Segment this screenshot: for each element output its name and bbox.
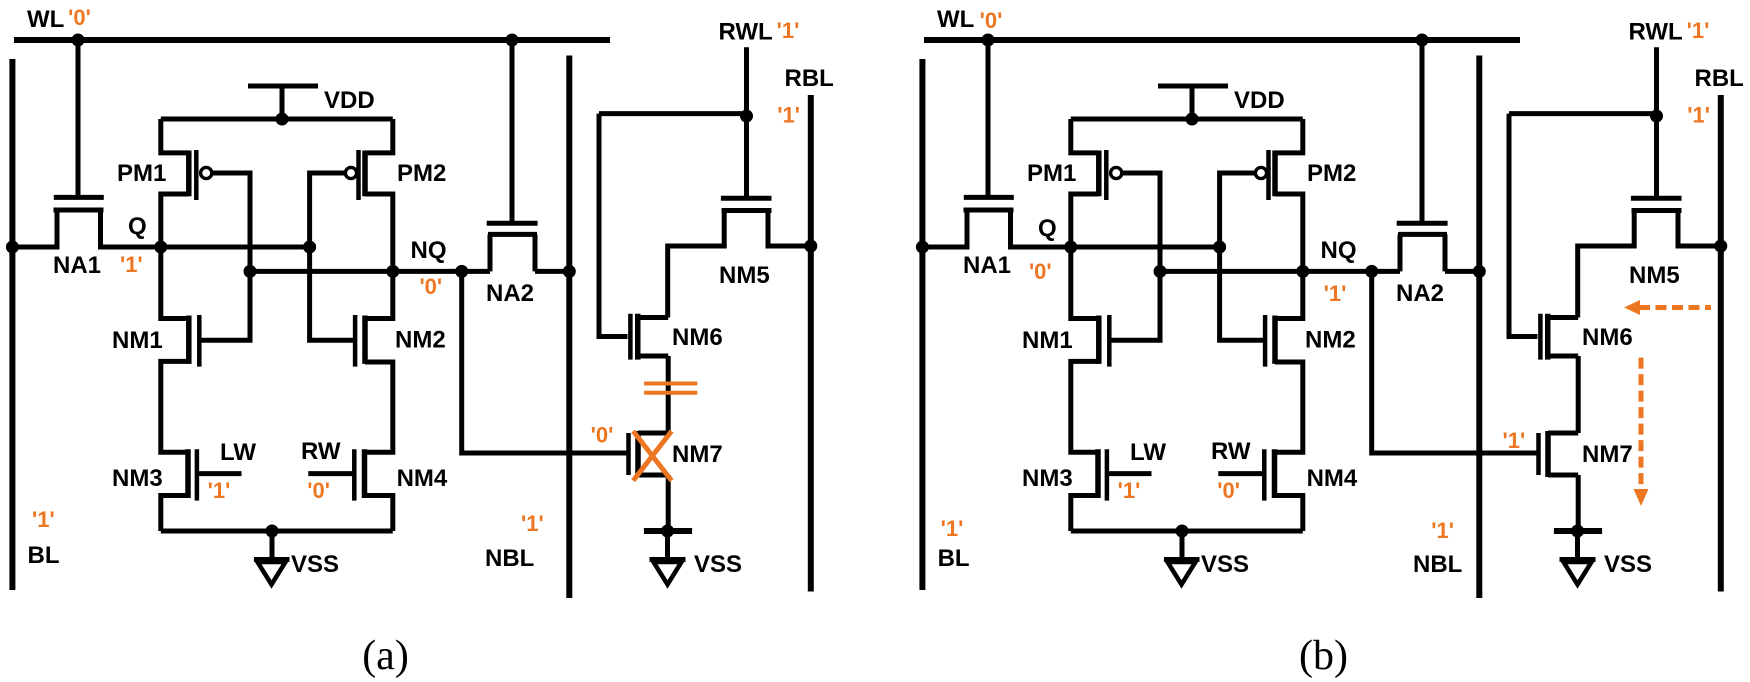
svg-text:LW: LW xyxy=(1130,439,1166,466)
svg-text:NA1: NA1 xyxy=(963,252,1011,279)
svg-text:VSS: VSS xyxy=(291,551,339,578)
svg-text:VDD: VDD xyxy=(1234,87,1285,114)
svg-text:'1': '1' xyxy=(208,478,231,503)
svg-text:NQ: NQ xyxy=(411,237,447,264)
svg-text:NM2: NM2 xyxy=(395,327,446,354)
svg-text:PM1: PM1 xyxy=(117,160,166,187)
svg-text:'1': '1' xyxy=(1687,103,1710,128)
svg-text:NM1: NM1 xyxy=(112,327,163,354)
svg-text:VSS: VSS xyxy=(694,551,742,578)
svg-text:RWL: RWL xyxy=(1629,19,1683,46)
svg-text:(b): (b) xyxy=(1299,633,1348,679)
svg-text:NA1: NA1 xyxy=(53,252,101,279)
svg-text:NA2: NA2 xyxy=(1396,280,1444,307)
svg-text:'0': '0' xyxy=(1029,259,1052,284)
svg-text:'1': '1' xyxy=(777,18,800,43)
svg-text:NA2: NA2 xyxy=(486,280,534,307)
svg-text:LW: LW xyxy=(220,439,256,466)
svg-text:'0': '0' xyxy=(1217,478,1240,503)
svg-text:PM1: PM1 xyxy=(1027,160,1076,187)
svg-text:NM4: NM4 xyxy=(1307,465,1358,492)
svg-text:PM2: PM2 xyxy=(1307,160,1356,187)
svg-text:VSS: VSS xyxy=(1201,551,1249,578)
svg-text:RW: RW xyxy=(301,438,341,465)
svg-text:'0': '0' xyxy=(419,274,442,299)
svg-text:'1': '1' xyxy=(1687,18,1710,43)
svg-text:NM5: NM5 xyxy=(719,262,770,289)
svg-text:NBL: NBL xyxy=(1413,551,1462,578)
svg-text:'0': '0' xyxy=(68,5,91,30)
svg-text:'1': '1' xyxy=(120,252,143,277)
svg-text:'1': '1' xyxy=(1118,478,1141,503)
svg-text:Q: Q xyxy=(128,213,147,240)
svg-text:NM6: NM6 xyxy=(1582,324,1633,351)
svg-text:WL: WL xyxy=(27,6,64,33)
svg-text:VSS: VSS xyxy=(1604,551,1652,578)
svg-text:WL: WL xyxy=(937,6,974,33)
svg-text:'0': '0' xyxy=(980,8,1003,33)
svg-text:NM1: NM1 xyxy=(1022,327,1073,354)
svg-text:'1': '1' xyxy=(1503,428,1526,453)
svg-text:RW: RW xyxy=(1211,438,1251,465)
svg-text:'1': '1' xyxy=(1324,281,1347,306)
svg-text:NM3: NM3 xyxy=(1022,465,1073,492)
svg-text:RBL: RBL xyxy=(785,65,834,92)
svg-text:NBL: NBL xyxy=(485,545,534,572)
svg-text:NM7: NM7 xyxy=(672,441,723,468)
svg-text:BL: BL xyxy=(28,542,60,569)
svg-text:NQ: NQ xyxy=(1321,237,1357,264)
svg-text:NM2: NM2 xyxy=(1305,327,1356,354)
svg-text:VDD: VDD xyxy=(324,87,375,114)
svg-text:NM4: NM4 xyxy=(397,465,448,492)
svg-text:RBL: RBL xyxy=(1695,65,1744,92)
svg-text:PM2: PM2 xyxy=(397,160,446,187)
svg-text:'1': '1' xyxy=(941,516,964,541)
svg-text:'1': '1' xyxy=(32,507,55,532)
svg-text:'1': '1' xyxy=(521,511,544,536)
svg-text:NM7: NM7 xyxy=(1582,441,1633,468)
svg-text:NM5: NM5 xyxy=(1629,262,1680,289)
svg-text:BL: BL xyxy=(938,545,970,572)
svg-text:NM6: NM6 xyxy=(672,324,723,351)
svg-text:'0': '0' xyxy=(307,478,330,503)
svg-text:RWL: RWL xyxy=(719,19,773,46)
svg-text:'1': '1' xyxy=(1431,518,1454,543)
svg-text:'0': '0' xyxy=(591,423,614,448)
svg-text:NM3: NM3 xyxy=(112,465,163,492)
svg-text:'1': '1' xyxy=(777,103,800,128)
svg-text:(a): (a) xyxy=(362,633,409,679)
svg-text:Q: Q xyxy=(1038,215,1057,242)
